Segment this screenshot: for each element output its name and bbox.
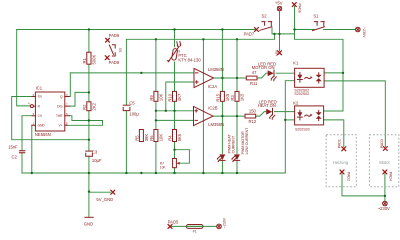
wire R2 bottom to THR node [88, 111, 90, 140]
pad PAD2 [340, 170, 344, 174]
node IC2A out [221, 77, 223, 79]
wire R11 to LED1 diagonal [257, 73, 268, 78]
op-amp IC2A [194, 68, 214, 87]
svg-text:PWM MOTOR: PWM MOTOR [241, 131, 245, 154]
resistor R9 [154, 91, 158, 101]
svg-text:C5: C5 [129, 100, 135, 105]
wire left border vertical to R pin [17, 30, 30, 106]
svg-text:IC2B: IC2B [208, 106, 218, 111]
node THR rail [88, 119, 90, 121]
wire ground rail y=173 [22, 81, 295, 173]
pad PAD3 [383, 147, 387, 151]
svg-text:K1: K1 [293, 60, 299, 65]
svg-text:5K6: 5K6 [177, 133, 182, 141]
svg-text:~230V: ~230V [362, 27, 366, 38]
pad PAD8 [292, 3, 296, 7]
svg-text:PAD7: PAD7 [244, 32, 255, 37]
svg-text:~230V: ~230V [378, 206, 390, 211]
svg-text:PAD4: PAD4 [389, 172, 393, 181]
pin +5V [278, 51, 282, 55]
pin stubs IC1 right [65, 97, 70, 126]
node R1/R2/DIS [88, 91, 90, 93]
pad PAD5 [168, 224, 172, 228]
svg-text:C2: C2 [12, 155, 18, 160]
svg-text:R10: R10 [168, 93, 173, 101]
pin stubs IC1 left [32, 97, 36, 126]
node pad4 junction [384, 195, 386, 197]
wire K2 right-bottom to PAD1 [324, 120, 344, 147]
K2 triac [316, 112, 322, 119]
svg-text:2K2: 2K2 [91, 102, 96, 110]
wire IC2A output row [214, 77, 247, 79]
resistor R15 [220, 91, 224, 101]
pad PAD4 [383, 170, 387, 174]
wire IC2B output row [213, 115, 246, 117]
svg-text:PAD9: PAD9 [109, 60, 120, 65]
wire +5V supply column [279, 11, 281, 51]
svg-text:S1: S1 [313, 14, 319, 19]
wire K1 right-top to column [324, 72, 343, 74]
svg-text:PAD6: PAD6 [109, 33, 120, 38]
svg-text:LM358N: LM358N [208, 67, 224, 72]
svg-text:1K5: 1K5 [240, 93, 245, 101]
resistor R1 [87, 52, 91, 64]
wire R1 column top [88, 30, 90, 53]
wire LED1 to K1 [276, 72, 295, 74]
svg-text:Motor: Motor [379, 160, 390, 165]
svg-text:S202S02: S202S02 [295, 127, 310, 131]
ground [85, 216, 93, 218]
svg-text:PAD5: PAD5 [168, 219, 179, 224]
svg-text:5V_GND: 5V_GND [96, 197, 113, 202]
svg-text:K2: K2 [293, 100, 299, 105]
svg-text:MOTOR ON: MOTOR ON [252, 65, 275, 70]
node TR/THR feedback [88, 139, 90, 141]
op-amp IC2B [194, 106, 214, 125]
svg-text:+5V: +5V [275, 1, 283, 6]
svg-text:4K7: 4K7 [177, 93, 182, 101]
svg-text:500K: 500K [91, 55, 96, 65]
node K2 left-bottom [284, 119, 286, 121]
pad PAD1 [342, 147, 346, 151]
svg-text:R4: R4 [168, 135, 173, 141]
svg-text:C3: C3 [92, 149, 98, 154]
svg-text:TR: TR [38, 95, 43, 99]
svg-text:V+: V+ [59, 124, 63, 128]
wire opamp power column [202, 39, 204, 173]
box Motor [369, 135, 398, 187]
terminal ~230V top [356, 27, 361, 32]
svg-text:R9: R9 [149, 95, 154, 101]
pad PAD7 [255, 28, 259, 32]
svg-text:47: 47 [252, 70, 257, 75]
svg-text:IC2A: IC2A [208, 84, 218, 89]
wire DIS pin step to R1/R2 node [69, 92, 89, 106]
svg-text:R3: R3 [230, 95, 235, 101]
wire +5 rail y=39.3 [126, 34, 274, 39]
wire S1 rail to terminal [295, 29, 356, 31]
box Heizung [326, 135, 356, 187]
wire PAD5 fuse row [172, 225, 217, 227]
svg-text:PAD3: PAD3 [380, 139, 384, 148]
wire gnd stub down to GND symbol [88, 192, 90, 217]
capacitor C5 polarized [123, 104, 130, 106]
supply +5V [277, 6, 281, 10]
svg-text:GND: GND [38, 124, 46, 128]
svg-text:PWM HEAT: PWM HEAT [227, 133, 231, 153]
svg-text:DIS: DIS [57, 104, 62, 108]
svg-text:GND: GND [84, 221, 93, 226]
sensor PTC KTY84-130 [167, 42, 181, 62]
node top rail junctions [88, 28, 90, 30]
svg-text:PAD2: PAD2 [346, 172, 350, 181]
pin numbers IC1 [28, 93, 68, 126]
pin 5V_GND [111, 190, 115, 194]
wire R3 column [236, 39, 238, 173]
svg-text:150: 150 [249, 109, 257, 114]
wire R1 bottom to node [88, 64, 90, 102]
K2 light arrow [305, 115, 311, 116]
svg-text:F1: F1 [193, 230, 197, 234]
opto-triac K2 [295, 106, 324, 125]
svg-text:PAD1: PAD1 [337, 139, 341, 148]
wire PAD2 to bottom junction to PAD4 and terminal [342, 174, 385, 201]
svg-text:Heizung: Heizung [333, 160, 349, 165]
node Q rail junctions [140, 72, 142, 74]
wire R15 column [221, 30, 223, 174]
wire C3 column [88, 140, 90, 192]
svg-text:R6: R6 [149, 135, 154, 141]
svg-text:R1: R1 [82, 57, 87, 63]
resistor R4 [173, 130, 177, 142]
svg-text:LOW CURRENT: LOW CURRENT [245, 127, 249, 155]
wire R7 wiper loop [175, 150, 190, 164]
svg-text:10K: 10K [158, 93, 163, 101]
wire THR pin step [69, 116, 102, 121]
wire C5 column [125, 39, 127, 173]
svg-text:S2: S2 [262, 13, 268, 18]
svg-text:LM358N: LM358N [208, 122, 224, 127]
svg-text:15nF: 15nF [8, 144, 18, 149]
K1 triac [316, 75, 322, 82]
svg-text:R5: R5 [135, 135, 140, 141]
svg-text:HEAT ON: HEAT ON [258, 103, 276, 108]
K1 led [299, 73, 301, 83]
node divider rail [155, 110, 157, 112]
svg-text:R11: R11 [250, 81, 258, 86]
wire rail y=110.8 to IC2B+ [156, 110, 194, 112]
node +5 rail junctions [155, 38, 157, 40]
resistor R6 [154, 130, 158, 142]
svg-text:10µF: 10µF [92, 158, 102, 163]
svg-text:S202S02: S202S02 [294, 92, 309, 96]
node IC2B out [221, 115, 223, 117]
resistor R5 [139, 130, 143, 142]
wire R12 to LED2 diagonal [256, 112, 266, 117]
wire Q pin up to y=72.9 rail [69, 73, 70, 97]
wire K2 left-bottom pin [285, 119, 294, 121]
wire PAD8 column down and over to K2 [295, 7, 344, 112]
svg-text:R12: R12 [249, 119, 257, 124]
wire top rail y=29.5 from left corner to PAD7 [17, 29, 257, 31]
svg-text:NE555N: NE555N [35, 132, 51, 137]
wire to 5V_GND pin [89, 191, 111, 193]
svg-text:CURRENT: CURRENT [232, 135, 236, 153]
pad PAD9 [105, 56, 109, 60]
wire rail y=72.9 Q to IC2A input [70, 72, 194, 74]
capacitor C2 [19, 150, 25, 151]
wire TR pin loop left and down to y=139.7 rail [12, 97, 89, 140]
wire IC1 GND pin column [31, 125, 33, 173]
LED red HEAT ON [266, 109, 272, 115]
svg-text:KTY 84-130: KTY 84-130 [178, 57, 201, 62]
switch S3 [109, 45, 115, 56]
K2 led [299, 110, 301, 120]
node S2 feed junctions [273, 33, 275, 35]
svg-text:S3: S3 [118, 48, 122, 52]
capacitor C3 polarized [86, 150, 93, 152]
pin inversion circle R [30, 105, 33, 108]
svg-text:~230V: ~230V [222, 217, 226, 228]
svg-text:PAD8: PAD8 [297, 4, 301, 13]
op IC1 box [35, 92, 64, 131]
wire rail y=120.4 to IC2B- [156, 119, 194, 121]
svg-text:IC1: IC1 [36, 86, 43, 91]
node R4/R7 wiper [173, 149, 175, 151]
svg-text:+5V: +5V [275, 49, 279, 56]
K1 light arrow [305, 77, 311, 78]
node gnd branch [88, 190, 90, 192]
wire IC2A+ leg [166, 82, 194, 111]
wire V+ s-path [67, 121, 103, 126]
svg-text:10K: 10K [160, 165, 167, 169]
LED pwm heat [220, 154, 226, 160]
switch S1 [314, 22, 324, 26]
wire CV pin to C2 [22, 116, 32, 173]
node ground rail junctions [31, 172, 33, 174]
svg-text:10K: 10K [158, 134, 163, 142]
terminal ~230V bottom center [217, 224, 222, 229]
terminal ~230V bottom right [383, 201, 388, 206]
svg-text:100µ: 100µ [129, 111, 139, 116]
svg-text:THR: THR [56, 114, 63, 118]
pad PAD6 [106, 38, 110, 42]
wire PTC/R10/R4/R7 column [174, 30, 176, 174]
wire R9/R6 column [155, 39, 157, 173]
resistor R11 [246, 76, 257, 80]
svg-text:R15: R15 [216, 93, 221, 101]
wire S2 right contact to PAD8 column [272, 28, 295, 34]
resistor R3 [235, 91, 239, 101]
LED pwm motor [234, 154, 240, 160]
trimmer R7 [173, 159, 177, 168]
opto-triac K1 [295, 68, 325, 87]
LED red MOTOR ON [268, 70, 274, 76]
fuse F1 [186, 225, 203, 229]
resistor R12 [245, 114, 256, 118]
wire LED2 to K2 [275, 111, 295, 113]
resistor R2 [87, 102, 91, 111]
resistor R10 [173, 91, 177, 101]
switch S2 [262, 22, 272, 26]
wire K1 right-bottom to motor pad [324, 81, 385, 147]
svg-text:R2: R2 [82, 104, 87, 110]
